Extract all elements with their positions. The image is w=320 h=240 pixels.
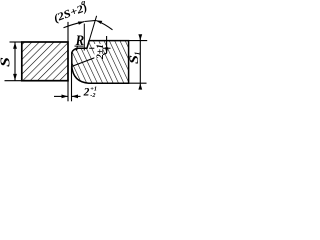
inner taper edge line from notch vertex: [72, 53, 107, 66]
R leader arrow to fillet: [76, 46, 78, 51]
S dimension extension line bottom (left): [5, 80, 22, 82]
slanted extension line along recess slope: [89, 16, 96, 41]
right leader arrow pointing up-left to slanted extension: [96, 20, 113, 29]
gap value label 2 +1/-2: [83, 86, 97, 99]
left plate (thickness S) hatched section: [22, 42, 68, 81]
S1 dimension extension line top (right): [129, 40, 148, 42]
right plate (thickness S1) hatched section with machined recess and bottom relief: [72, 41, 129, 84]
S1 dimension line with outside arrows: [138, 34, 142, 89]
root gap left extension line (below left plate edge): [67, 81, 69, 102]
dimension segment between extension lines: [84, 20, 96, 21]
svg-text:1: 1: [134, 52, 142, 56]
root gap dimension line with outside arrows: [54, 95, 81, 99]
S1 dimension extension line bottom (right): [129, 82, 147, 84]
left plate edge extension above (to arc dimension): [67, 22, 69, 42]
(2S+2)a label rotated: [52, 2, 89, 25]
svg-text:a: a: [81, 0, 85, 7]
S dimension line with arrows: [13, 42, 17, 81]
S dimension extension line top (left): [10, 41, 22, 43]
svg-text:2: 2: [83, 86, 90, 98]
recess depth label 2+-1 rotated: [94, 44, 105, 60]
recess depth dimension line with down arrow: [105, 36, 108, 53]
S1 label: [126, 52, 141, 64]
svg-text:S: S: [126, 55, 141, 64]
recess bottom extension line to the right: [89, 47, 110, 49]
svg-text:S: S: [0, 57, 13, 67]
vertical extension line from recess to arc dimension: [83, 24, 85, 51]
svg-text:-2: -2: [90, 92, 95, 99]
R shelf underline: [75, 45, 84, 47]
root gap right extension line (below right plate edge): [71, 66, 73, 101]
leader from label with arrow to extension line (left): [64, 22, 85, 28]
svg-text:2±1: 2±1: [95, 44, 105, 60]
